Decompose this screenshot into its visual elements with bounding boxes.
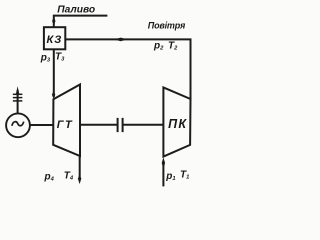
svg-text:Повітря: Повітря	[148, 20, 186, 30]
svg-text:ПК: ПК	[168, 117, 187, 131]
svg-text:КЗ: КЗ	[46, 34, 62, 46]
svg-text:Паливо: Паливо	[57, 5, 95, 16]
svg-text:ГТ: ГТ	[57, 119, 73, 131]
